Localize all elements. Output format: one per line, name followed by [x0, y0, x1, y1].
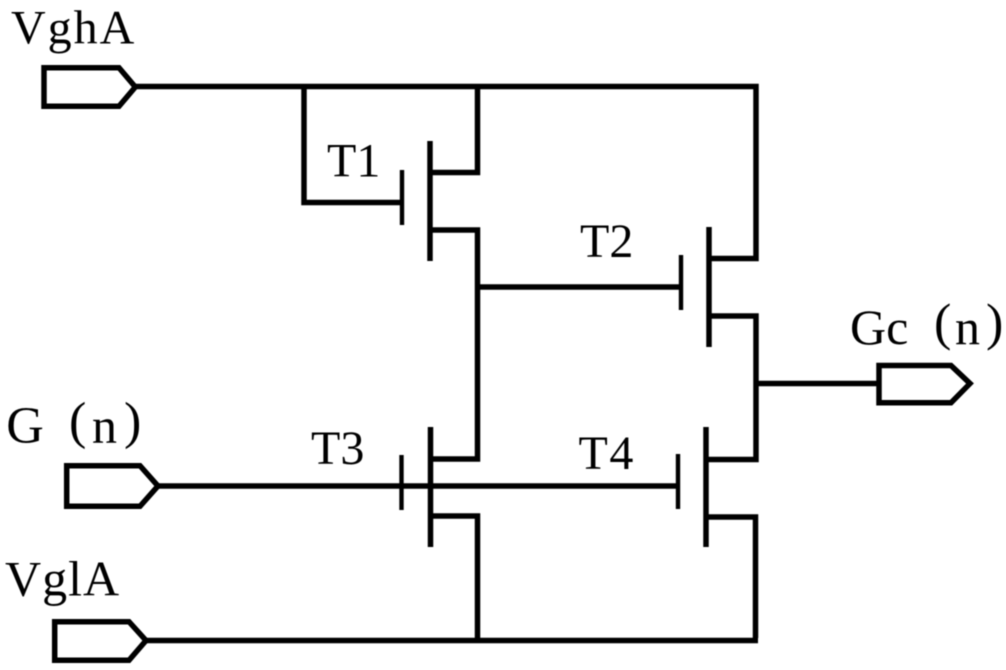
wire: VglA bottom rail [145, 638, 758, 644]
svg-text:T4: T4 [579, 427, 635, 480]
wire: T1 drain arm [430, 84, 478, 173]
transistor T3 gate bar [399, 455, 403, 510]
svg-text:VglA: VglA [5, 551, 120, 607]
transistor T2 gate bar [679, 255, 683, 310]
svg-text:T3: T3 [311, 422, 364, 475]
wire: output to Gc(n) [756, 381, 879, 387]
svg-text:(: ( [69, 393, 86, 450]
svg-text:(: ( [934, 295, 951, 352]
svg-text:VghA: VghA [11, 2, 136, 55]
svg-text:n: n [92, 398, 117, 454]
terminal Gc(n) [879, 366, 970, 403]
svg-text:Gc: Gc [850, 299, 908, 355]
svg-text:G: G [6, 398, 44, 455]
wire: T3 source arm down to bottom rail [431, 516, 478, 641]
wire: T2 source arm, right mid vertical, T4 drain arm [706, 316, 756, 460]
transistor T3 channel bar [428, 427, 434, 547]
svg-text:T2: T2 [580, 215, 633, 268]
transistor T1 channel bar [427, 141, 433, 261]
transistor T2 channel bar [706, 227, 712, 347]
wire: T1 gate drop and gate lead [304, 84, 402, 203]
wire: G(n) gate rail through T3 to T4 [157, 483, 678, 489]
svg-text:): ) [124, 393, 141, 450]
wire: T4 source arm down to bottom rail [706, 517, 756, 638]
wire: T1 source arm, mid vertical, T3 drain arm [430, 230, 478, 459]
svg-text:T1: T1 [327, 135, 380, 188]
transistor T1 gate bar [400, 170, 404, 225]
transistor T4 gate bar [676, 454, 680, 509]
svg-text:): ) [986, 295, 1003, 352]
svg-text:n: n [955, 299, 980, 355]
wire: T2 gate lead [478, 284, 682, 290]
transistor T4 channel bar [703, 427, 709, 547]
terminal VghA [44, 68, 135, 107]
terminal VglA [55, 622, 146, 661]
wire: VghA top rail, right vertical, T2 drain arm [135, 87, 756, 259]
terminal G(n) [67, 466, 158, 507]
